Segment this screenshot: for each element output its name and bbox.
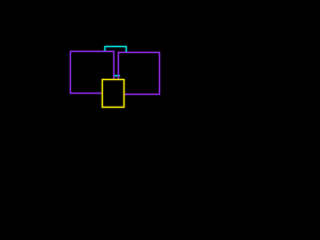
wire cyan staple bracket (under purple rect edges) <box>105 47 126 53</box>
node C yellow rectangle border <box>102 80 124 108</box>
wire cyan tick (under purple verticals) <box>114 75 120 77</box>
node C interior fill (black, occludes purple edges) <box>102 80 124 108</box>
node B purple rectangle right <box>118 52 159 94</box>
node A purple rectangle left <box>70 51 113 93</box>
